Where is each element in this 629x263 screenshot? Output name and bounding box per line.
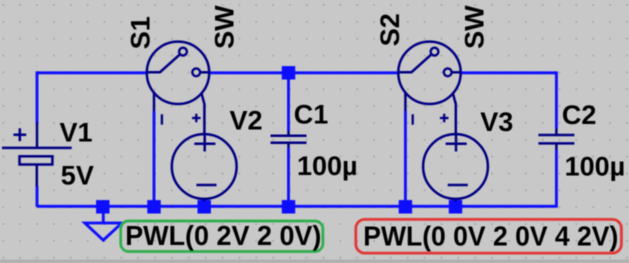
svg-text:C1: C1: [294, 99, 329, 129]
svg-text:PWL(0 0V 2 0V 4 2V): PWL(0 0V 2 0V 4 2V): [363, 221, 618, 252]
svg-text:100µ: 100µ: [565, 152, 626, 182]
svg-text:V2: V2: [230, 106, 263, 136]
svg-text:S1: S1: [126, 16, 156, 49]
svg-text:PWL(0 2V 2 0V): PWL(0 2V 2 0V): [125, 220, 321, 251]
svg-text:C2: C2: [562, 100, 597, 130]
svg-text:V1: V1: [60, 117, 93, 147]
svg-text:V3: V3: [480, 107, 513, 137]
svg-text:S2: S2: [375, 13, 405, 46]
svg-text:SW: SW: [459, 5, 489, 49]
svg-text:SW: SW: [210, 5, 240, 49]
svg-text:5V: 5V: [61, 160, 94, 190]
svg-text:100µ: 100µ: [297, 151, 358, 181]
